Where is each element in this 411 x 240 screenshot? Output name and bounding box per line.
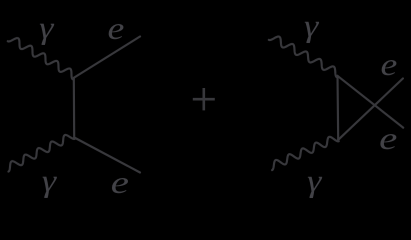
label gamma-3 bbox=[304, 9, 320, 44]
label gamma-2 bbox=[42, 164, 58, 199]
electron line: triangle top side extended to bottom-right e bbox=[337, 76, 403, 128]
photon gamma-2 (incoming, bottom-left) bbox=[8, 135, 74, 172]
svg-text:γ: γ bbox=[307, 164, 323, 199]
photon gamma-4 (incoming, bottom of right diagram) bbox=[272, 137, 339, 170]
plus sign bbox=[193, 88, 215, 110]
svg-text:γ: γ bbox=[39, 11, 55, 46]
svg-text:e: e bbox=[111, 164, 129, 200]
label e-1 bbox=[107, 11, 124, 47]
svg-text:e: e bbox=[379, 120, 397, 156]
photon gamma-3 (incoming, top of right diagram) bbox=[269, 37, 337, 78]
label e-4 (bottom-right) bbox=[379, 120, 397, 156]
electron line e-2 (outgoing, bottom-right) bbox=[74, 137, 140, 172]
electron line e-1 (outgoing, top-right) bbox=[74, 36, 141, 78]
label gamma-1 bbox=[39, 11, 55, 46]
electron propagator (vertical, between vertices) bbox=[73, 78, 76, 138]
electron line: triangle bottom side extended to top-right e bbox=[338, 78, 403, 139]
label e-3 (top-right) bbox=[381, 47, 398, 83]
label gamma-4 bbox=[307, 164, 323, 199]
svg-text:e: e bbox=[381, 47, 398, 83]
photon gamma-1 (incoming, top-left) bbox=[8, 38, 73, 79]
svg-text:γ: γ bbox=[304, 9, 320, 44]
svg-text:e: e bbox=[107, 11, 124, 47]
electron loop left side (vertical propagator of triangle) bbox=[336, 76, 339, 140]
label e-2 bbox=[111, 164, 129, 200]
svg-text:γ: γ bbox=[42, 164, 58, 199]
